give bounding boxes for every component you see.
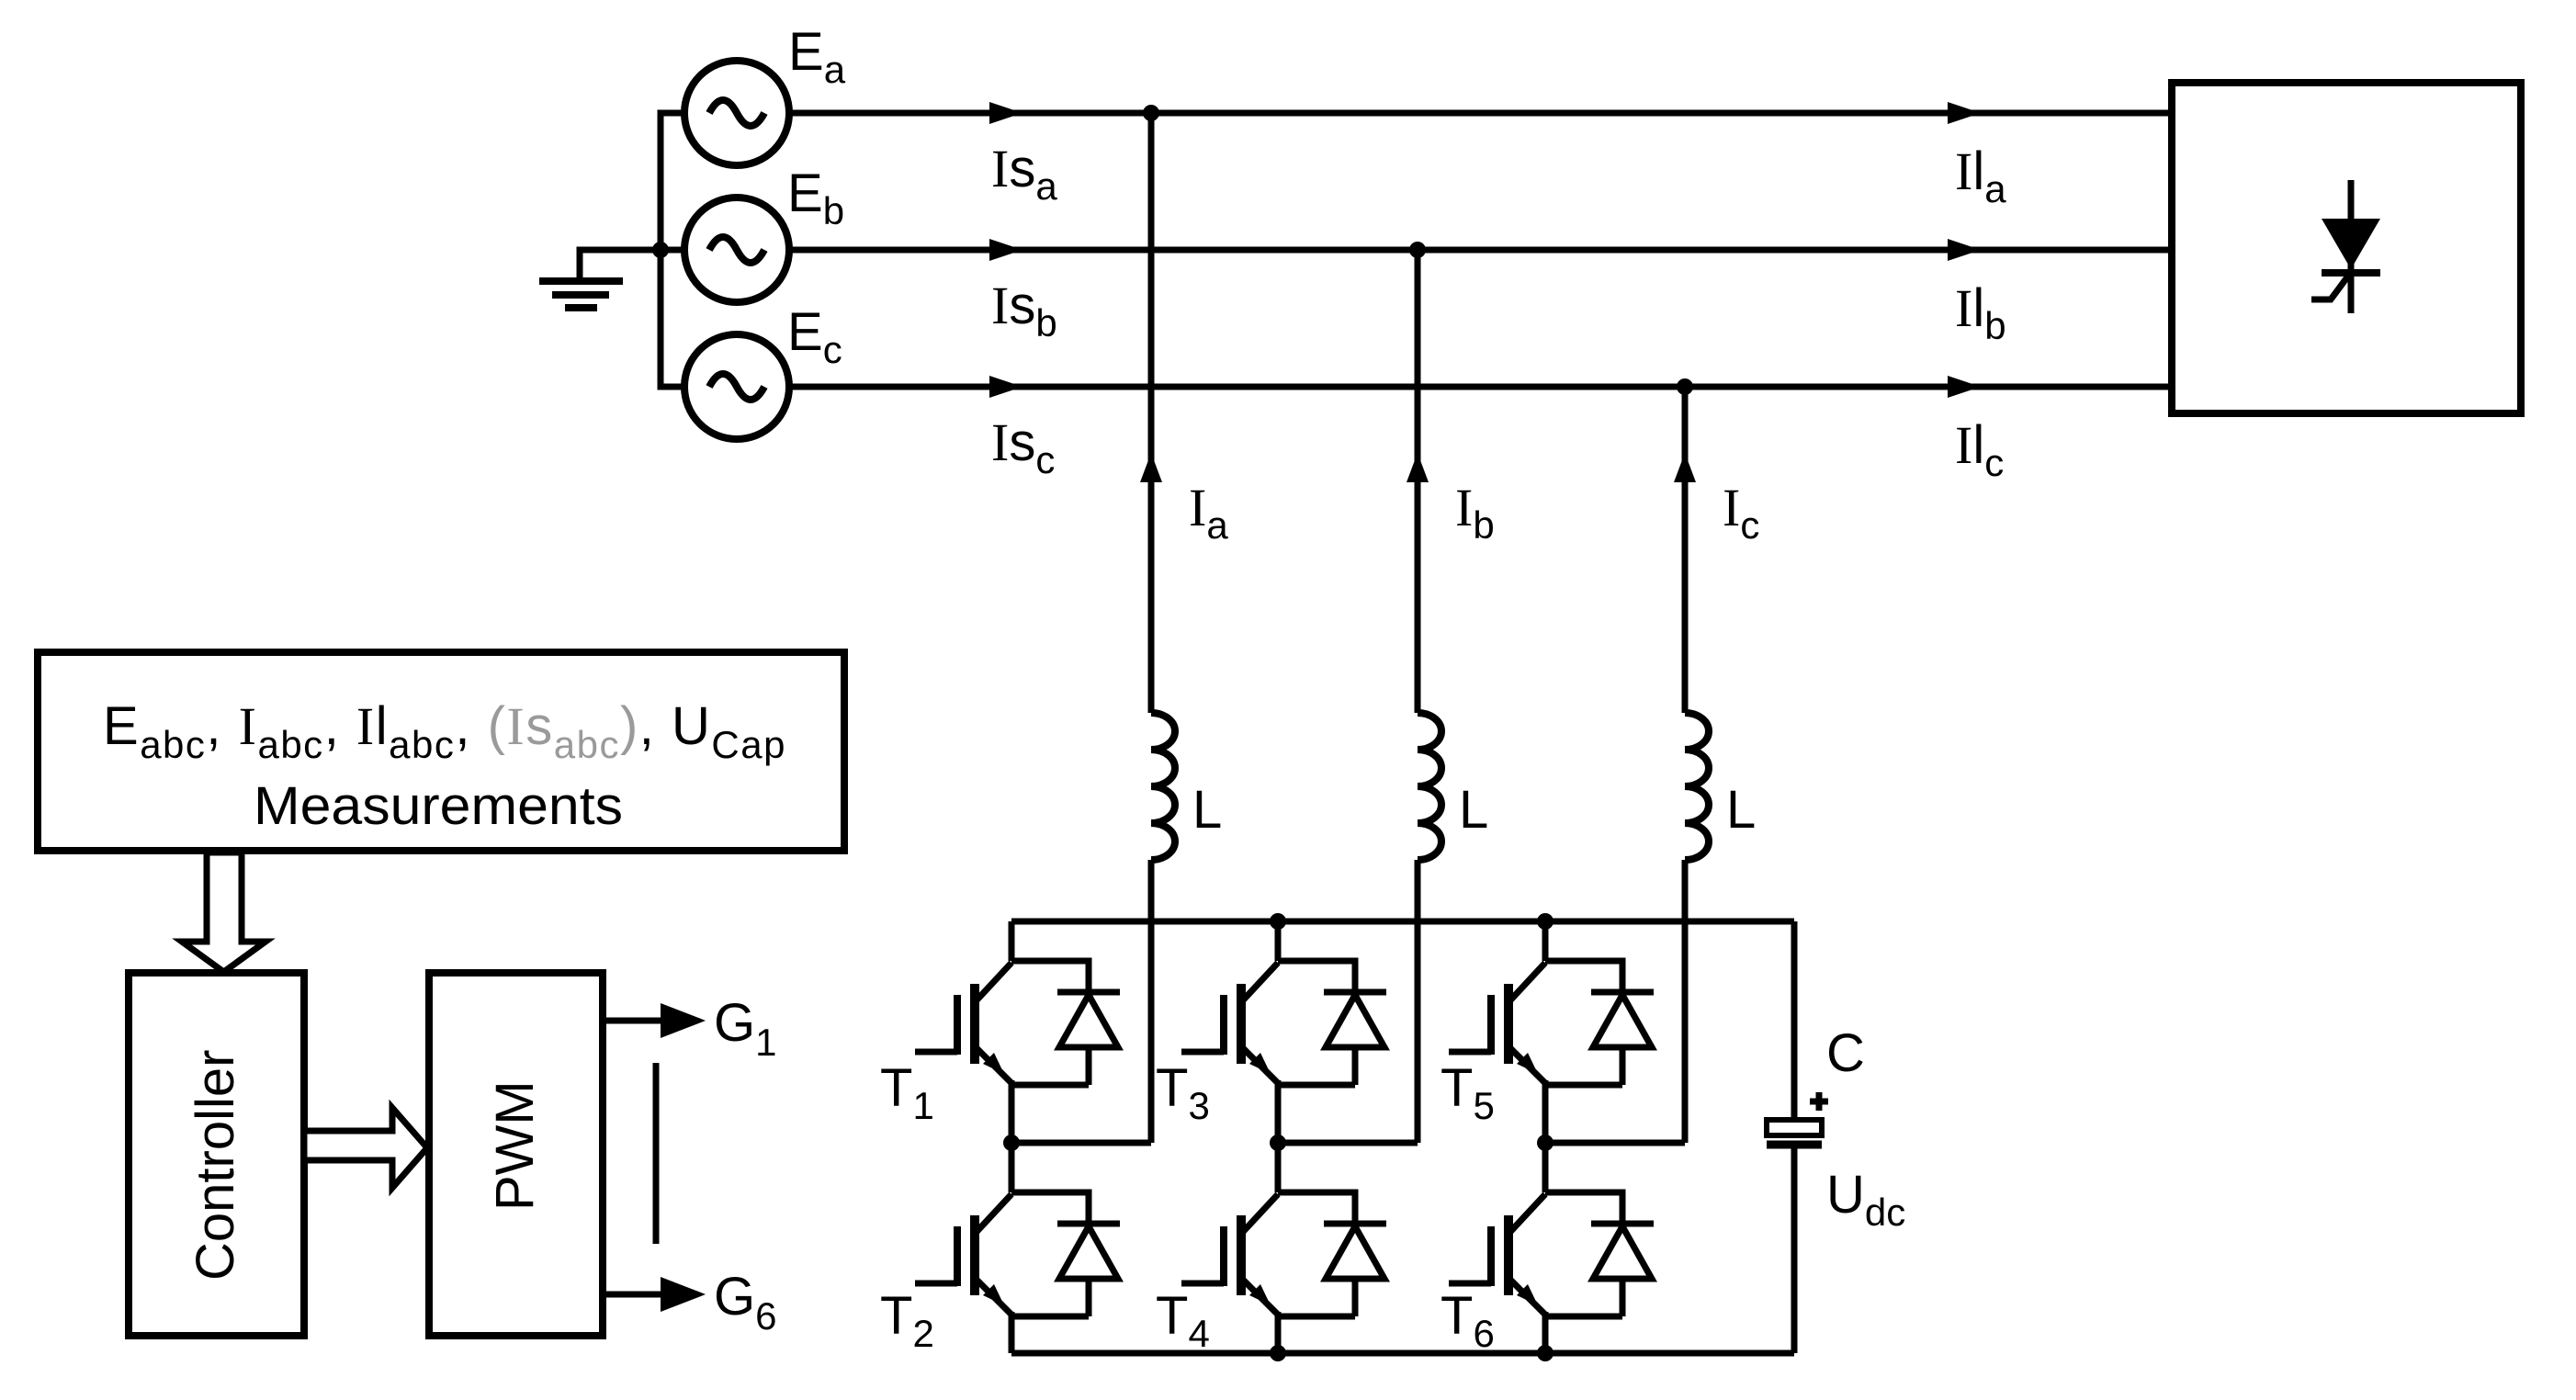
- wire: T6 collector: [1542, 1143, 1549, 1192]
- diode D5: [1545, 961, 1654, 1085]
- PWM box: [429, 973, 603, 1336]
- wire: dc bottom bus: [1011, 1350, 1794, 1357]
- node: leg2 midpoint: [1270, 1135, 1286, 1151]
- arrow I_c: [1674, 453, 1696, 482]
- transistor T2: [915, 1194, 1011, 1315]
- arrow I_a: [1140, 453, 1162, 482]
- wire: T4 collector: [1275, 1143, 1282, 1192]
- wire: phase c line: [789, 384, 2172, 390]
- wire: T5 emitter: [1542, 1080, 1549, 1143]
- transistor T3: [1181, 963, 1278, 1083]
- wire: leg1 midpoint link: [1011, 1140, 1151, 1146]
- source Eb: [684, 198, 789, 302]
- arrow G1 out: [604, 1003, 706, 1038]
- diode D6: [1545, 1192, 1654, 1316]
- wire: neutral bus: [661, 113, 684, 387]
- wire: T3 emitter: [1275, 1080, 1282, 1143]
- node: phase c tap: [1677, 378, 1693, 395]
- transistor T6: [1449, 1194, 1545, 1315]
- load box: [2172, 83, 2521, 413]
- node: neutral junction: [652, 242, 669, 258]
- node: top bus leg2: [1270, 913, 1286, 930]
- ground symbol: [539, 281, 623, 308]
- arrow Is_b: [989, 239, 1022, 261]
- arrow Il_c: [1948, 376, 1981, 398]
- controller box: [129, 973, 304, 1336]
- wire: capacitor branch bottom: [1791, 1148, 1798, 1353]
- separator bar G2..G5: [653, 1063, 660, 1244]
- wire: T6 emitter: [1542, 1312, 1549, 1353]
- measurements box: [38, 652, 844, 851]
- transistor T4: [1181, 1194, 1278, 1315]
- arrow Il_b: [1948, 239, 1981, 261]
- hollow arrow: measurements to controller: [182, 852, 266, 972]
- inductor L (phase b): [1418, 713, 1441, 860]
- wire: T5 collector: [1542, 921, 1549, 961]
- wire: ground lead: [580, 250, 661, 278]
- arrow G6 out: [604, 1277, 706, 1312]
- thyristor in load box: [2311, 180, 2380, 313]
- wire: capacitor branch top: [1791, 921, 1798, 1120]
- capacitor C: [1767, 1120, 1822, 1145]
- inductor L (phase c): [1685, 713, 1709, 860]
- wire: T4 emitter: [1275, 1312, 1282, 1353]
- transistor T1: [915, 963, 1011, 1083]
- node: leg1 midpoint: [1003, 1135, 1020, 1151]
- node: bottom bus leg2: [1270, 1345, 1286, 1361]
- node: phase b tap: [1409, 242, 1426, 258]
- wire: T1 collector: [1009, 921, 1015, 961]
- node: leg3 midpoint: [1537, 1135, 1554, 1151]
- wire: filter feed b: [1415, 250, 1421, 1143]
- diode D1: [1011, 961, 1120, 1085]
- node: top bus leg3: [1537, 913, 1554, 930]
- wire: leg3 midpoint link: [1545, 1140, 1685, 1146]
- source Ec: [684, 334, 789, 439]
- svg-text:L: L: [1726, 780, 1756, 840]
- wire: phase a line: [789, 110, 2172, 117]
- svg-text:L: L: [1192, 780, 1222, 840]
- svg-text:C: C: [1826, 1023, 1865, 1083]
- hollow arrow: controller to PWM: [304, 1108, 427, 1188]
- arrow Is_c: [989, 376, 1022, 398]
- source Ea: [684, 61, 789, 165]
- svg-text:PWM: PWM: [485, 1080, 545, 1211]
- diode D4: [1278, 1192, 1386, 1316]
- svg-text:L: L: [1459, 780, 1488, 840]
- node: bottom bus leg3: [1537, 1345, 1554, 1361]
- wire: phase b line: [789, 247, 2172, 254]
- wire: dc top bus: [1011, 919, 1794, 925]
- arrow I_b: [1407, 453, 1429, 482]
- diode D2: [1011, 1192, 1120, 1316]
- arrow Il_a: [1948, 102, 1981, 124]
- capacitor plus sign: [1810, 1092, 1828, 1111]
- inductor L (phase a): [1151, 713, 1175, 860]
- wire: T2 emitter: [1009, 1312, 1015, 1353]
- diode D3: [1278, 961, 1386, 1085]
- wire: leg2 midpoint link: [1278, 1140, 1418, 1146]
- transistor T5: [1449, 963, 1545, 1083]
- wire: T2 collector: [1009, 1143, 1015, 1192]
- node: phase a tap: [1143, 105, 1159, 121]
- wire: T3 collector: [1275, 921, 1282, 961]
- svg-text:Controller: Controller: [186, 1050, 245, 1281]
- arrow Is_a: [989, 102, 1022, 124]
- wire: T1 emitter: [1009, 1080, 1015, 1143]
- wire: filter feed a: [1148, 113, 1155, 1143]
- wire: filter feed c: [1682, 387, 1689, 1143]
- svg-text:Measurements: Measurements: [254, 776, 623, 836]
